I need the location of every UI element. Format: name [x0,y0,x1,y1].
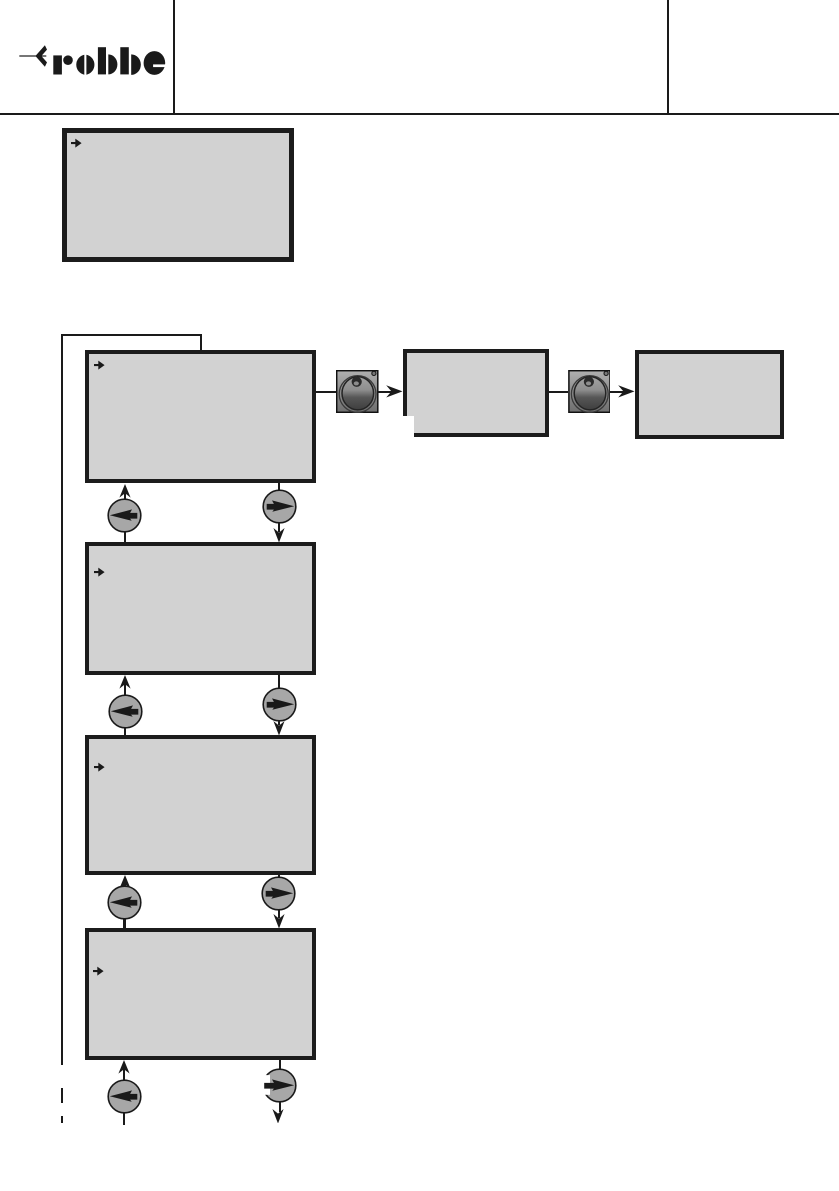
pair 1: up arrowhead into box 1 [119,484,131,498]
robbe logo [15,40,171,80]
pair 3: dial right button [260,875,297,912]
loop wire dash 1 [61,1088,63,1103]
header divider vertical left [173,0,175,115]
pair 4: wire down right [279,1060,281,1112]
header rule [0,113,839,115]
flow box 3 [85,735,316,874]
pair 3: dial left button [106,884,143,921]
wire screen box2 to knob2 [549,391,568,393]
arrow glyph box 2 [94,567,105,577]
pair 3: down arrowhead into box 4 [273,911,285,929]
arrow knob2 to screen box 3 [610,391,624,393]
pair 2: wire up-shaft left [124,681,126,735]
screen box 2 [403,349,549,436]
pair 2: dial right button [261,686,298,723]
header divider vertical right [667,0,669,115]
pair 2: up arrowhead into box 2 [119,675,131,689]
rotary knob photo 2 [568,370,611,413]
loop wire left vertical [61,334,63,1066]
pair 3: wire down right [278,875,280,919]
rotary knob photo 1 [336,370,379,413]
flow box 2 [85,542,316,675]
screen box 3 [635,350,785,439]
intro box [62,128,294,262]
arrow glyph box 3 [94,762,105,772]
loop wire top horizontal [61,334,201,336]
pair 1: down arrowhead into box 2 [273,525,285,543]
arrow glyph intro box [71,138,82,148]
pair 1: dial left button [106,497,143,534]
pair 2: wire down right [278,675,280,725]
pair 1: wire down right [278,483,280,532]
loop wire stub into box 1 [200,334,202,350]
flow box 1 [85,350,316,484]
pair 4: up arrowhead into box 4 [118,1060,130,1074]
arrow knob1 to screen box 2 [378,391,392,393]
loop wire dash 2 [61,1116,63,1123]
pair 3: wire up-shaft left [123,881,125,929]
wire box1 to knob1 [316,391,336,393]
screen box 2 corner notch [402,416,414,438]
pair 2: dial left button [107,693,144,730]
arrow glyph box 4 [93,966,104,976]
pair 2: down arrowhead into box 3 [273,718,285,736]
arrow glyph box 1 [94,360,105,370]
pair 4: down arrowhead terminal [272,1106,284,1124]
pair 3: up arrowhead into box 3 [119,875,131,889]
pair 4: dial right button (clipped) [261,1067,298,1104]
pair 4: wire up-shaft left [123,1066,125,1126]
pair 4: dial left button [106,1078,143,1115]
pair 1: dial right button [261,488,298,525]
pair 1: wire up-shaft left [124,489,126,542]
flow box 4 [85,928,316,1060]
